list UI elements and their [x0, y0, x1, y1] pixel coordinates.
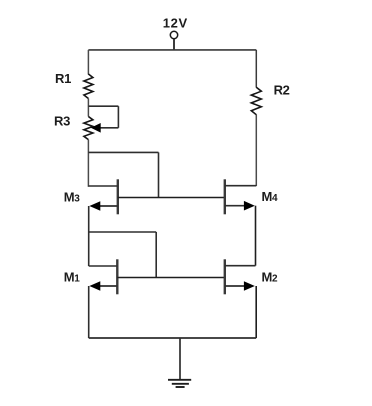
wire R2 to M4 drain — [255, 115, 257, 187]
resistor R3 (potentiometer body) — [54, 113, 93, 139]
wire M2 source down to bottom rail — [255, 286, 257, 338]
wire R3 wiper loop vertical — [117, 106, 119, 128]
wire R3 wiper loop top — [88, 105, 118, 107]
svg-text:R2: R2 — [274, 82, 290, 97]
transistor M3 — [64, 179, 118, 214]
wire gate row upper (M3 gate to M4 gate) — [118, 197, 225, 199]
wire M4 source down to M2 drain — [255, 206, 257, 266]
svg-text:R3: R3 — [54, 113, 70, 128]
svg-text:12V: 12V — [163, 16, 188, 31]
wire top rail — [88, 49, 256, 51]
svg-text:M2: M2 — [262, 270, 279, 285]
wire bottom rail — [89, 337, 257, 339]
wire ground stem — [179, 338, 181, 380]
transistor M1 — [64, 259, 118, 294]
wire between R1 and R3 — [87, 99, 89, 117]
transistor M2 — [225, 259, 278, 294]
wire R3 bottom to M3 drain — [87, 140, 89, 187]
wire M1 source down to bottom rail — [88, 286, 90, 338]
wire left branch from rail to R1 — [87, 50, 89, 75]
R3 wiper arrowhead — [91, 123, 101, 133]
wire gate feedback branch vertical (upper stage) — [158, 152, 160, 197]
wire gate row lower (M1 gate to M2 gate) — [117, 277, 225, 279]
ground — [168, 380, 191, 387]
svg-text:M4: M4 — [262, 189, 279, 204]
wire rail to R2 — [255, 50, 257, 88]
transistor M4 — [225, 179, 278, 214]
svg-text:M3: M3 — [64, 189, 81, 204]
node 12V supply terminal — [163, 16, 188, 50]
svg-text:M1: M1 — [64, 270, 81, 285]
wire M3 source down to M1 drain — [88, 206, 90, 266]
wire gate feedback branch horizontal (lower stage) — [89, 231, 157, 233]
wire R3 wiper lead — [100, 127, 119, 129]
resistor R2 — [251, 82, 289, 114]
svg-text:R1: R1 — [55, 71, 71, 86]
resistor R1 — [55, 71, 93, 98]
wire gate feedback branch vertical (lower stage) — [155, 232, 157, 278]
wire gate feedback branch horizontal (upper stage) — [88, 151, 158, 153]
